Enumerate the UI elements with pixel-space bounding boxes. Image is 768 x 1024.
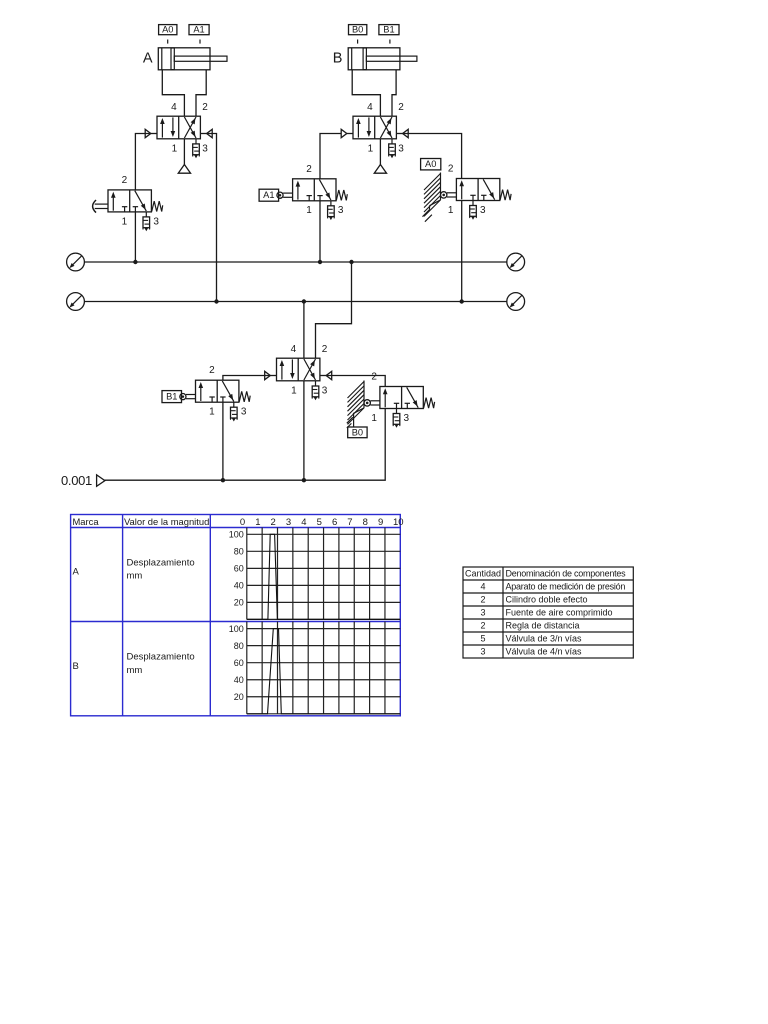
svg-text:B1: B1	[166, 392, 177, 402]
svg-text:2: 2	[398, 102, 404, 113]
valve V-A (4/2) left pilot	[151, 133, 157, 135]
valve V-A1 (3/2 roller) silencer (port 3)	[330, 201, 332, 206]
svg-text:1: 1	[209, 407, 215, 418]
svg-text:mm: mm	[127, 665, 143, 676]
valve V-PB (3/2 pushbutton) silencer (port 3)	[145, 212, 147, 217]
valve V-B0 wall link to label	[353, 414, 355, 427]
compressed air source under valve V-B	[379, 139, 381, 165]
svg-text:B0: B0	[352, 25, 363, 35]
valve V-A1 roller	[277, 192, 283, 198]
wire valve V-A0 port 1 to bus line 2	[461, 201, 463, 302]
valve V-M (4/2 middle) left pilot	[270, 375, 276, 377]
displacement curve A	[247, 534, 400, 619]
wire valve V-B1 port 2 to valve V-M left pilot	[223, 376, 270, 381]
svg-text:3: 3	[338, 205, 344, 216]
wire cylinder B left port to valve V-B port 4	[352, 70, 380, 116]
junction on supply bus	[221, 478, 225, 482]
chart grid row B	[247, 628, 400, 630]
svg-text:5: 5	[317, 517, 322, 528]
pressure gauge right-1	[507, 253, 525, 271]
junction on bus 2	[302, 299, 306, 303]
bus line 2	[84, 301, 506, 303]
compressed air source under valve V-A	[183, 139, 185, 165]
displacement curve B	[247, 629, 400, 714]
junction on supply bus	[302, 478, 306, 482]
svg-text:100: 100	[229, 624, 244, 634]
wire valve V-B1 port 1 to supply bus	[222, 402, 224, 480]
svg-text:A: A	[143, 50, 153, 66]
valve V-PB (3/2 pushbutton) spring	[152, 201, 163, 211]
parts list table frame	[463, 567, 633, 658]
svg-text:2: 2	[202, 102, 208, 113]
svg-text:4: 4	[367, 102, 373, 113]
label box A0	[421, 159, 441, 170]
valve V-A (4/2) body	[157, 116, 200, 139]
svg-text:4: 4	[301, 517, 306, 528]
svg-text:3: 3	[480, 647, 485, 657]
wire valve V-A1 port 1 to bus line 1	[319, 201, 321, 262]
svg-text:Desplazamiento: Desplazamiento	[127, 557, 195, 568]
wire valve V-A1 port 2 to valve V-B left pilot	[320, 134, 347, 179]
cylinder A piston rod	[174, 56, 227, 61]
svg-text:B: B	[333, 50, 343, 66]
valve V-B1 actuator label box B1	[162, 391, 182, 403]
cylinder B body	[348, 48, 400, 70]
valve V-B0 (3/2 cam roller) spring	[424, 398, 435, 408]
valve V-B1 (3/2 roller) silencer (port 3)	[233, 402, 235, 407]
bus line 1	[84, 261, 506, 263]
valve V-B1 plunger	[186, 394, 196, 396]
label box B0	[348, 427, 367, 438]
chart grid row A	[247, 533, 400, 535]
svg-text:20: 20	[234, 692, 244, 702]
supply bus wire	[104, 409, 386, 481]
svg-text:3: 3	[404, 413, 410, 424]
svg-text:1: 1	[306, 205, 312, 216]
valve V-B (4/2) left pilot	[347, 133, 353, 135]
svg-text:2: 2	[480, 621, 485, 631]
junction on bus 2	[214, 299, 218, 303]
pressure gauge left-2	[67, 293, 85, 311]
svg-text:1: 1	[368, 143, 374, 154]
wire bus 1 to valve V-M port 2	[316, 262, 352, 358]
silencer at valve V-M port 3	[315, 381, 317, 386]
svg-text:10: 10	[393, 517, 404, 528]
valve V-B0 cam wall (distance rule)	[363, 381, 365, 408]
silencer at valve V-A port 3	[195, 139, 197, 144]
valve V-A (4/2) right pilot	[200, 133, 206, 135]
cylinder A body	[158, 48, 210, 70]
svg-text:40: 40	[234, 675, 244, 685]
svg-text:2: 2	[271, 517, 276, 528]
svg-text:8: 8	[363, 517, 368, 528]
svg-text:1: 1	[255, 517, 260, 528]
state diagram table frame	[71, 515, 401, 716]
valve V-M (4/2 middle) body	[277, 358, 320, 381]
junction on bus 2	[460, 299, 464, 303]
svg-text:3: 3	[322, 385, 328, 396]
wire valve V-M right pilot to valve V-B0 port 2	[326, 376, 385, 387]
svg-text:3: 3	[241, 407, 247, 418]
svg-text:A: A	[73, 567, 80, 578]
cylinder A sensor boxes A0,A1	[159, 25, 177, 35]
valve V-A0 (3/2 cam roller) silencer (port 3)	[472, 201, 474, 206]
svg-text:1: 1	[172, 143, 178, 154]
svg-text:3: 3	[480, 205, 486, 216]
svg-text:6: 6	[332, 517, 337, 528]
svg-text:5: 5	[480, 634, 485, 644]
svg-text:4: 4	[171, 102, 177, 113]
svg-text:2: 2	[480, 595, 485, 605]
cylinder A piston	[171, 48, 174, 70]
wire cylinder A right port to valve V-A port 2	[196, 70, 206, 116]
valve V-A0 roller	[441, 192, 447, 198]
valve V-A1 plunger	[283, 192, 293, 194]
cylinder A sensor ticks	[167, 40, 169, 44]
svg-text:80: 80	[234, 641, 244, 651]
svg-text:7: 7	[347, 517, 352, 528]
valve V-B0 roller	[364, 400, 370, 406]
svg-text:1: 1	[122, 216, 128, 227]
valve V-A1 (3/2 roller) spring	[336, 190, 347, 200]
valve V-B0 (3/2 cam roller) body	[380, 387, 423, 409]
svg-text:Denominación de componentes: Denominación de componentes	[506, 569, 627, 579]
cylinder B piston	[363, 48, 366, 70]
valve V-B1 (3/2 roller) spring	[239, 391, 250, 401]
valve V-B (4/2) body	[353, 116, 396, 139]
svg-text:2: 2	[322, 344, 328, 355]
svg-text:2: 2	[371, 372, 377, 383]
svg-text:3: 3	[398, 143, 404, 154]
svg-text:3: 3	[153, 216, 159, 227]
svg-text:Marca: Marca	[73, 516, 100, 527]
wire cylinder A left port to valve V-A port 4	[162, 70, 184, 116]
wire valve V-PB port 1 to bus line 1	[134, 212, 136, 262]
svg-text:Fuente de aire comprimido: Fuente de aire comprimido	[506, 608, 613, 618]
valve V-M (4/2 middle) right pilot	[320, 375, 326, 377]
svg-text:A0: A0	[425, 159, 436, 169]
svg-text:2: 2	[122, 175, 128, 186]
svg-text:1: 1	[371, 413, 377, 424]
valve V-A0 plunger	[447, 192, 457, 194]
svg-text:3: 3	[480, 608, 485, 618]
valve V-PB (3/2 pushbutton) body	[108, 190, 151, 212]
pressure gauge left-1	[67, 253, 85, 271]
svg-text:A1: A1	[263, 190, 274, 200]
silencer at valve V-B port 3	[391, 139, 393, 144]
svg-text:Cilindro doble efecto: Cilindro doble efecto	[506, 595, 588, 605]
valve V-A0 (3/2 cam roller) spring	[500, 190, 511, 200]
svg-text:B1: B1	[383, 25, 394, 35]
valve V-B1 (3/2 roller) body	[196, 380, 239, 402]
wire valve V-M port 1 to supply bus	[303, 381, 305, 480]
junction on bus 1	[133, 260, 137, 264]
valve V-B1 roller	[180, 394, 186, 400]
svg-text:Desplazamiento: Desplazamiento	[127, 652, 195, 663]
valve V-PB pushbutton actuator	[93, 200, 96, 213]
svg-text:9: 9	[378, 517, 383, 528]
svg-text:2: 2	[448, 164, 454, 175]
wire cylinder B right port to valve V-B port 2	[392, 70, 396, 116]
svg-text:40: 40	[234, 581, 244, 591]
svg-text:Válvula de 4/n vías: Válvula de 4/n vías	[506, 647, 583, 657]
svg-text:60: 60	[234, 564, 244, 574]
svg-text:80: 80	[234, 547, 244, 557]
valve V-A1 (3/2 roller) body	[293, 179, 336, 201]
cylinder B sensor ticks	[357, 40, 359, 44]
svg-text:1: 1	[448, 205, 454, 216]
pressure gauge right-2	[507, 293, 525, 311]
svg-text:3: 3	[286, 517, 291, 528]
svg-text:2: 2	[209, 365, 215, 376]
junction on bus 1	[318, 260, 322, 264]
svg-text:4: 4	[291, 344, 297, 355]
cylinder B piston rod	[366, 56, 417, 61]
valve V-B0 (3/2 cam roller) silencer (port 3)	[396, 409, 398, 414]
svg-text:0: 0	[240, 517, 245, 528]
svg-text:B: B	[73, 661, 79, 672]
svg-text:Aparato de medición de presión: Aparato de medición de presión	[506, 582, 626, 592]
wire valve V-A right pilot down to bus line 2	[207, 134, 217, 302]
wire valve V-PB port 2 to valve V-A left pilot	[135, 134, 150, 190]
svg-text:100: 100	[229, 530, 244, 540]
svg-text:Cantidad: Cantidad	[465, 569, 501, 579]
svg-text:Valor de la magnitud: Valor de la magnitud	[124, 516, 209, 527]
svg-text:3: 3	[202, 143, 208, 154]
svg-text:Regla de distancia: Regla de distancia	[506, 621, 580, 631]
valve V-B0 plunger	[370, 400, 380, 402]
valve V-A0 (3/2 cam roller) body	[456, 179, 499, 201]
wire bus 2 to valve V-M port 4	[303, 302, 305, 359]
svg-text:4: 4	[480, 582, 485, 592]
svg-text:20: 20	[234, 598, 244, 608]
wire valve V-B right pilot to valve V-A0 port 2	[403, 134, 462, 179]
svg-text:A1: A1	[193, 25, 204, 35]
svg-text:B0: B0	[352, 427, 363, 437]
valve V-A0 cam wall (distance rule)	[440, 173, 442, 200]
svg-text:mm: mm	[127, 571, 143, 582]
svg-text:0.001: 0.001	[61, 473, 92, 488]
valve V-A1 actuator label box A1	[259, 189, 279, 201]
svg-text:Válvula de 3/n vías: Válvula de 3/n vías	[506, 634, 583, 644]
junction on bus 1	[349, 260, 353, 264]
valve V-B (4/2) right pilot	[396, 133, 402, 135]
cylinder B sensor boxes B0,B1	[349, 25, 367, 35]
svg-text:A0: A0	[162, 25, 173, 35]
svg-text:60: 60	[234, 658, 244, 668]
svg-text:1: 1	[291, 385, 297, 396]
svg-text:2: 2	[306, 164, 312, 175]
